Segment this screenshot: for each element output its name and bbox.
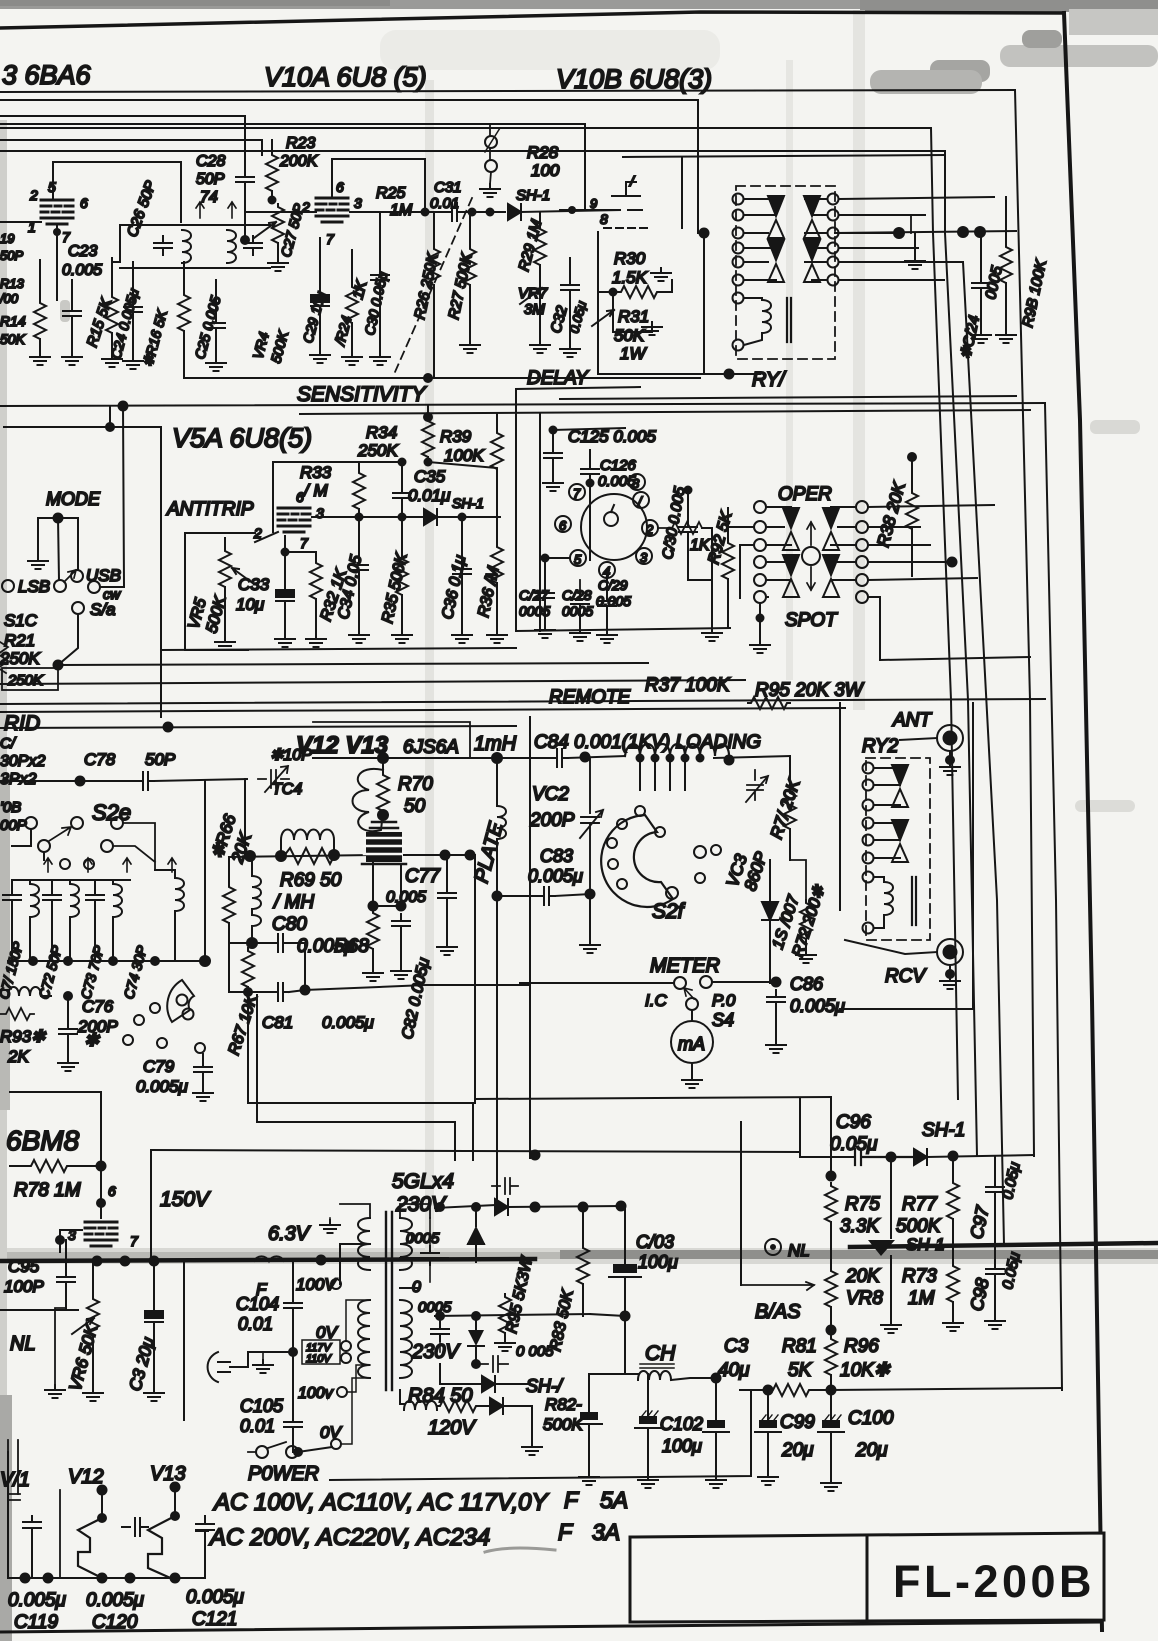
svg-text:B/AS: B/AS xyxy=(755,1301,801,1323)
svg-text:P.0: P.0 xyxy=(712,991,736,1010)
capacitor C24 xyxy=(124,300,142,319)
diode SH1 ps xyxy=(914,1149,927,1165)
ground C3 xyxy=(144,1388,164,1401)
node plug xyxy=(288,1347,298,1357)
svg-text:C119: C119 xyxy=(14,1612,58,1633)
node power xyxy=(293,1447,303,1457)
svg-text:30Px2: 30Px2 xyxy=(0,753,45,770)
wire spot right wiring xyxy=(868,505,994,660)
node C126 xyxy=(586,479,595,488)
svg-text:R93✱: R93✱ xyxy=(0,1027,47,1046)
svg-text:10K✱: 10K✱ xyxy=(840,1360,891,1381)
wire remote lines xyxy=(161,648,516,650)
ground R73 xyxy=(943,1318,963,1331)
small contacts above bank xyxy=(60,859,70,869)
node C103 xyxy=(620,1311,631,1322)
node 250K xyxy=(53,660,64,671)
svg-text:REMOTE: REMOTE xyxy=(549,687,631,708)
capacitor C96 series xyxy=(855,1149,914,1165)
svg-text:CH: CH xyxy=(645,1342,676,1365)
wire y427 xyxy=(4,427,161,717)
ground VR7 xyxy=(530,340,550,353)
svg-text:5A: 5A xyxy=(600,1487,628,1513)
tube V10B plate element xyxy=(606,182,642,210)
ground C25 xyxy=(206,358,226,371)
jack RCV xyxy=(937,939,963,978)
ground C102 xyxy=(638,1475,658,1488)
capacitor C100 xyxy=(830,1390,832,1420)
wire y157 bus xyxy=(623,155,945,157)
ground C76 xyxy=(58,1058,78,1071)
wire C96 row xyxy=(800,1156,855,1158)
wire x184 drop xyxy=(183,1261,185,1420)
vertical x205 xyxy=(204,781,206,961)
node R81 right xyxy=(826,1385,837,1396)
ground R32 xyxy=(306,634,326,647)
contact 1 xyxy=(633,492,649,508)
wire S4 right xyxy=(712,981,776,983)
svg-text:0.005μ: 0.005μ xyxy=(322,1013,375,1032)
svg-text:C78: C78 xyxy=(84,750,116,769)
transformer core xyxy=(386,1212,392,1390)
node C81 right xyxy=(300,985,311,996)
node v13 mid xyxy=(170,1511,180,1521)
contact lower xyxy=(72,602,84,614)
capacitor C126 xyxy=(589,450,591,462)
svg-text:SH-1: SH-1 xyxy=(452,495,484,511)
wire grid bus y728 xyxy=(0,726,516,728)
wire pin6 xyxy=(100,1166,102,1218)
ground VR6 xyxy=(83,1388,103,1401)
svg-text:R70: R70 xyxy=(398,774,433,795)
ground mA xyxy=(682,1075,702,1088)
svg-text:C23: C23 xyxy=(68,243,97,260)
RY1 armature bowtie 3 xyxy=(768,240,784,282)
capacitor C119 xyxy=(23,1516,41,1578)
wire loading right xyxy=(714,756,790,758)
band coil group4 coil xyxy=(155,870,175,878)
capacitor C78 series xyxy=(137,772,154,790)
wire rail y943 xyxy=(229,942,272,944)
wire RCV left xyxy=(845,940,937,954)
vertical x475 xyxy=(474,855,476,1103)
resistor R36 xyxy=(496,517,498,544)
wire inner right vertical xyxy=(1015,90,1034,1156)
diode D2 up xyxy=(475,1207,477,1226)
wire rail y992 xyxy=(229,943,272,992)
svg-text:SH-/: SH-/ xyxy=(526,1376,564,1396)
svg-text:mA: mA xyxy=(678,1034,705,1054)
tap 100v lower xyxy=(337,1387,347,1397)
svg-text:V5A 6U8(5): V5A 6U8(5) xyxy=(172,423,312,453)
node choke bottom xyxy=(492,891,503,902)
plate choke xyxy=(496,758,498,806)
tube 6BM8 xyxy=(85,1222,117,1246)
wire VR6 arrow line xyxy=(0,1309,78,1311)
pot R31 xyxy=(592,310,614,326)
resistor R32 xyxy=(285,552,316,560)
wire tube left xyxy=(0,221,41,223)
svg-text:0.01: 0.01 xyxy=(240,1416,275,1436)
wire rail y857 xyxy=(229,855,372,857)
wire y210 to V10B plate xyxy=(560,209,614,211)
node R70 bottom xyxy=(377,809,389,821)
resistor R35 xyxy=(401,517,403,556)
svg-text:C96: C96 xyxy=(836,1112,871,1133)
left scan edge strip xyxy=(0,120,7,1641)
capacitor C99 xyxy=(767,1390,769,1420)
wire x831 drop xyxy=(830,1097,832,1176)
ground mode xyxy=(28,556,48,569)
wire contact5 stub xyxy=(545,557,570,559)
S2f contacts xyxy=(635,806,645,816)
wire pin3 xyxy=(60,1230,82,1252)
ground 6.3V xyxy=(329,1218,331,1222)
node plate bus a xyxy=(377,752,389,764)
resistor R93 xyxy=(0,1008,34,1020)
svg-text:R96: R96 xyxy=(844,1336,879,1357)
dashed screen diagonal xyxy=(395,198,472,372)
wire grid bus y712 xyxy=(0,708,845,712)
wire sensitivity top xyxy=(184,377,700,379)
wire tube plate right xyxy=(404,854,475,856)
capacitor C125 xyxy=(552,430,554,446)
node row2 a xyxy=(435,1311,445,1321)
wire c96 junction down xyxy=(890,1157,892,1238)
spot bowtie right top xyxy=(823,508,839,550)
svg-text:7: 7 xyxy=(326,231,335,247)
resistor R70 xyxy=(377,772,389,814)
switch POWER xyxy=(248,1442,286,1452)
svg-text:ANTITRIP: ANTITRIP xyxy=(166,499,254,520)
svg-text:SH-1: SH-1 xyxy=(922,1120,965,1141)
svg-text:R37 100K: R37 100K xyxy=(645,675,731,696)
node band d xyxy=(316,1255,327,1266)
node rail h5 xyxy=(170,1573,181,1584)
node pin7 xyxy=(53,228,61,236)
capacitor VC2 xyxy=(580,758,603,890)
wire bus y116 xyxy=(0,116,245,170)
svg-text:50P: 50P xyxy=(0,248,23,263)
resistor R83 xyxy=(582,1207,584,1245)
svg-text:V10B 6U8(3): V10B 6U8(3) xyxy=(556,64,712,94)
node d3 xyxy=(471,1359,481,1369)
capacitor C82 xyxy=(392,914,410,933)
node C125 xyxy=(549,426,558,435)
svg-text:3 6BA6: 3 6BA6 xyxy=(2,60,92,90)
spot switch left contacts xyxy=(754,501,766,513)
wire c125 to contact7 xyxy=(553,428,625,430)
wire L-drop b xyxy=(257,995,455,1160)
svg-text:S2f: S2f xyxy=(652,900,686,923)
svg-text:500K: 500K xyxy=(896,1216,942,1237)
svg-text:6: 6 xyxy=(336,179,344,195)
wire bus y140 xyxy=(0,140,262,155)
capacitor in can2 xyxy=(244,236,262,255)
wire sec mid xyxy=(400,1258,448,1288)
heater chevron v13 xyxy=(148,1516,175,1580)
svg-text:0V: 0V xyxy=(316,1323,338,1342)
capacitor C86 xyxy=(767,990,785,1009)
svg-text:C28: C28 xyxy=(196,153,225,170)
svg-text:1mH: 1mH xyxy=(474,733,517,755)
node band a xyxy=(92,1256,103,1267)
svg-text:R77: R77 xyxy=(902,1194,938,1215)
svg-text:VC2: VC2 xyxy=(532,784,569,805)
spot arrows xyxy=(807,522,815,590)
ground R35 xyxy=(392,630,412,643)
diode IS1007 xyxy=(769,860,771,902)
spot bowtie right bottom xyxy=(823,555,839,597)
rect diode row1 xyxy=(435,1205,495,1208)
svg-text:V12: V12 xyxy=(68,1466,104,1488)
node rail y857 b xyxy=(275,850,287,862)
node plate bus b xyxy=(491,752,503,764)
svg-text:100P: 100P xyxy=(4,1277,44,1296)
svg-text:500K: 500K xyxy=(543,1415,583,1434)
left edge caps xyxy=(8,1490,60,1578)
svg-text:0.005μ: 0.005μ xyxy=(186,1587,245,1608)
svg-text:20K: 20K xyxy=(845,1266,881,1287)
wire bus y151 xyxy=(0,151,945,233)
contact LSB xyxy=(2,580,14,592)
resistor R37 xyxy=(748,697,790,709)
capacitor C81 series xyxy=(272,983,289,1001)
capacitor C121 xyxy=(196,1516,214,1578)
ground R72 xyxy=(796,950,816,963)
svg-text:/00: /00 xyxy=(0,291,19,306)
capacitor C31 series xyxy=(446,203,463,221)
contact 7 xyxy=(569,484,585,500)
lower coil L xyxy=(0,989,8,991)
wire bus y128 xyxy=(0,128,933,233)
node C83 right xyxy=(585,889,596,900)
wire heater v11 xyxy=(7,1452,9,1578)
tube V12 V13 xyxy=(370,822,398,828)
svg-text:NL: NL xyxy=(788,1241,810,1260)
svg-text:0005: 0005 xyxy=(418,1299,452,1316)
svg-text:C120: C120 xyxy=(92,1612,138,1633)
svg-text:20μ: 20μ xyxy=(855,1440,888,1461)
RY2 core xyxy=(912,877,916,925)
contact wiper S1a xyxy=(54,580,66,592)
tap 100V top xyxy=(340,1244,370,1284)
node 899 xyxy=(893,227,905,239)
wire bottom left verticals xyxy=(8,1440,18,1494)
node grid bus xyxy=(163,722,174,733)
node C84 right xyxy=(580,752,591,763)
resistor R75 xyxy=(825,1183,837,1225)
resistor R26 xyxy=(428,246,440,288)
svg-text:P0WER: P0WER xyxy=(248,1463,319,1485)
RY2 coil xyxy=(874,877,884,882)
node pin7 xyxy=(281,548,290,557)
wire S2e to bank xyxy=(113,823,155,870)
capacitor C36 xyxy=(461,517,463,562)
hatch C99 xyxy=(762,1415,778,1420)
svg-text:C/: C/ xyxy=(0,735,17,752)
wire wafer right xyxy=(688,528,712,628)
capacitor C3 20u xyxy=(153,1261,155,1306)
node grid caps b xyxy=(396,901,407,912)
node x428 y378 xyxy=(423,373,433,383)
svg-text:3: 3 xyxy=(640,550,648,565)
wire crystal box bottom xyxy=(516,628,730,631)
spot bowtie left top xyxy=(783,508,799,550)
resistor R23 xyxy=(266,152,278,194)
jack stub on y124 xyxy=(490,124,491,184)
node d1 a xyxy=(530,1202,541,1213)
svg-text:R23: R23 xyxy=(286,135,315,152)
capacitor C28 xyxy=(236,170,254,189)
coil can1 xyxy=(182,230,191,263)
node d2 xyxy=(471,1202,481,1212)
transformer secondary upper xyxy=(400,1218,412,1270)
svg-text:110V: 110V xyxy=(306,1353,333,1365)
ground R27 xyxy=(460,340,480,353)
spot hub circle xyxy=(802,547,820,565)
node d1 c xyxy=(616,1201,627,1212)
wire row2 to CH xyxy=(590,1314,625,1374)
ground VR5 xyxy=(215,637,235,650)
svg-text:R28: R28 xyxy=(527,143,559,162)
svg-text:C35: C35 xyxy=(414,467,446,486)
wire spot bottom left xyxy=(759,603,761,640)
node pin3 xyxy=(55,1235,65,1245)
node 963 xyxy=(957,226,969,238)
svg-text:1M: 1M xyxy=(390,202,413,219)
svg-text:S4: S4 xyxy=(712,1010,734,1030)
svg-text:0.005μ: 0.005μ xyxy=(136,1077,189,1096)
node R38 xyxy=(907,452,917,462)
ground C127 xyxy=(535,625,555,638)
wafer key xyxy=(604,512,618,526)
svg-text:V/1: V/1 xyxy=(0,1469,30,1491)
node rail c xyxy=(108,956,118,966)
ground R68 xyxy=(363,968,383,981)
svg-text:50K: 50K xyxy=(0,331,26,347)
capacitor C129 xyxy=(606,578,608,594)
resistor R67 xyxy=(242,948,254,990)
wire y398 xyxy=(560,396,1016,399)
ground C29 xyxy=(310,350,330,363)
svg-text:DELAY: DELAY xyxy=(527,368,589,389)
node y943 a xyxy=(246,937,258,949)
svg-text:7: 7 xyxy=(130,1233,139,1249)
svg-text:6BM8: 6BM8 xyxy=(6,1125,80,1156)
wire pin2 xyxy=(255,532,278,542)
svg-text:R14: R14 xyxy=(0,313,26,329)
svg-text:3: 3 xyxy=(354,195,362,211)
tube V5A xyxy=(278,508,310,532)
wire heater v12 xyxy=(101,1487,103,1518)
trimmer VC xyxy=(746,770,768,802)
svg-text:R30: R30 xyxy=(614,249,646,268)
resistor R16 xyxy=(178,292,190,334)
wire x716 xyxy=(715,1378,717,1420)
ground C79 xyxy=(193,1088,213,1101)
ground C129 xyxy=(597,630,617,643)
diode bias junction xyxy=(868,1240,895,1256)
switch S1a wiring xyxy=(38,518,78,570)
ground ANT xyxy=(940,762,960,775)
svg-text:SH-1: SH-1 xyxy=(516,187,550,204)
wire spot left wiring xyxy=(728,527,768,598)
ground R95ps xyxy=(495,1338,515,1351)
capacitor C80 series xyxy=(272,934,289,952)
svg-text:LSB: LSB xyxy=(18,577,50,596)
resistor R15 xyxy=(106,294,118,336)
RY1 left contacts xyxy=(733,194,744,205)
node rail y857 a xyxy=(244,850,256,862)
pot VR7 xyxy=(520,288,542,304)
svg-text:1M: 1M xyxy=(908,1288,935,1309)
node v13 xyxy=(170,1482,181,1493)
svg-text:VR8: VR8 xyxy=(846,1288,883,1309)
wire y896 xyxy=(497,895,538,897)
node rail h1 xyxy=(20,1573,31,1584)
svg-text:V10A 6U8 (5): V10A 6U8 (5) xyxy=(264,62,427,92)
svg-text:2K: 2K xyxy=(7,1047,29,1066)
node C35 xyxy=(398,458,407,467)
node v12 mid xyxy=(97,1513,107,1523)
spot switch right contacts xyxy=(856,501,868,513)
relay RY1 dashed box xyxy=(736,186,835,359)
svg-text:C126: C126 xyxy=(600,457,637,474)
capacitor C130 xyxy=(687,490,689,520)
wire plate line y212 xyxy=(350,211,446,213)
svg-text:0V: 0V xyxy=(320,1423,342,1442)
node y210 xyxy=(568,206,576,214)
node r33 xyxy=(355,513,364,522)
capacitor d3 series xyxy=(476,1356,508,1372)
wire remote bus y665 xyxy=(58,663,648,665)
svg-text:C/29: C/29 xyxy=(598,577,628,593)
contact 2 xyxy=(642,520,658,536)
svg-text:0.005: 0.005 xyxy=(62,262,102,279)
ground RCV xyxy=(940,976,960,989)
ground C86 xyxy=(766,1040,786,1053)
node y406 xyxy=(118,401,129,412)
resistor R66 xyxy=(228,857,230,884)
ground C95 xyxy=(55,1308,66,1385)
svg-text:6JS6A: 6JS6A xyxy=(403,737,459,758)
svg-text:0005: 0005 xyxy=(406,1230,440,1247)
resistor R95ps xyxy=(499,1294,511,1336)
capacitor C25 xyxy=(207,316,225,335)
resistor R34 xyxy=(427,406,429,418)
wire S2e left xyxy=(12,829,44,860)
capacitor C30 xyxy=(371,268,389,287)
capacitor C98 xyxy=(994,1243,996,1262)
transformer top leads xyxy=(340,1204,430,1218)
capacitor C84 series xyxy=(551,749,568,767)
wire x123 down to CW xyxy=(100,406,124,587)
ground C23 xyxy=(62,352,82,365)
wire R81 to corner xyxy=(831,1388,1062,1390)
capacitor C76 xyxy=(67,996,69,1022)
svg-text:R13: R13 xyxy=(0,276,25,291)
driver coil xyxy=(382,758,384,770)
svg-text:R69 50: R69 50 xyxy=(280,870,342,891)
node tube right a xyxy=(440,850,451,861)
ground VR4 xyxy=(268,258,288,271)
title block outer box xyxy=(630,1533,1104,1622)
node R23 xyxy=(268,196,277,205)
svg-text:120V: 120V xyxy=(428,1417,476,1439)
node x831 xyxy=(826,1171,837,1182)
hatch C102 xyxy=(642,1411,658,1416)
